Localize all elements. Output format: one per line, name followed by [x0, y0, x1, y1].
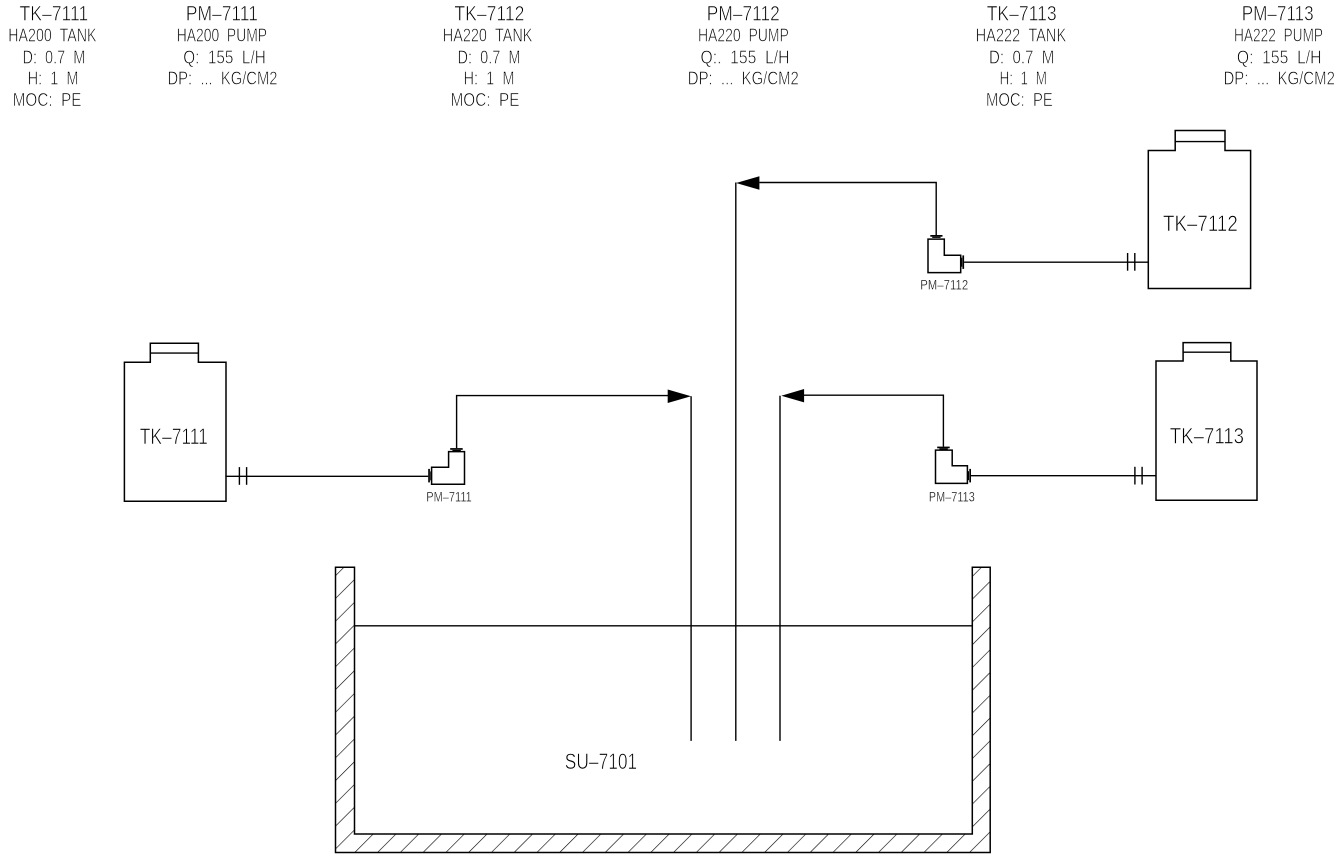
tank TK-7112	[1148, 131, 1250, 289]
pipe PM-7112 discharge up and left	[760, 183, 937, 236]
svg-text:PM–7112: PM–7112	[707, 2, 780, 26]
tank TK-7113	[1156, 343, 1257, 501]
arrow into right drop pipe	[781, 389, 804, 402]
svg-text:TK–7113: TK–7113	[1170, 424, 1244, 449]
svg-text:PM–7111: PM–7111	[426, 489, 472, 504]
pump PM-7112	[920, 235, 968, 293]
sump liquid level line	[355, 625, 973, 627]
pipe TK-7111 to PM-7111	[225, 475, 428, 477]
svg-text:HA220 PUMP: HA220 PUMP	[698, 25, 789, 46]
svg-text:H: 1 M: H: 1 M	[999, 68, 1047, 89]
svg-text:HA220 TANK: HA220 TANK	[443, 25, 533, 46]
svg-text:D: 0.7 M: D: 0.7 M	[989, 47, 1054, 68]
svg-text:PM–7111: PM–7111	[186, 2, 258, 26]
drop pipe into sump (right)	[779, 396, 781, 741]
svg-text:MOC: PE: MOC: PE	[451, 89, 520, 110]
svg-text:TK–7111: TK–7111	[20, 2, 89, 26]
svg-text:HA222 TANK: HA222 TANK	[976, 25, 1067, 46]
svg-text:PM–7113: PM–7113	[1242, 2, 1314, 26]
svg-text:SU–7101: SU–7101	[565, 749, 637, 774]
svg-text:TK–7112: TK–7112	[454, 2, 524, 26]
drop pipe into sump (left)	[690, 396, 692, 741]
arrow into center drop pipe	[736, 176, 759, 189]
svg-text:DP: ... KG/CM2: DP: ... KG/CM2	[168, 68, 278, 89]
sump SU-7101 hatched walls	[336, 567, 991, 852]
svg-text:MOC: PE: MOC: PE	[13, 89, 82, 110]
label block TK-7112 spec	[443, 2, 533, 111]
svg-text:Q: 155 L/H: Q: 155 L/H	[183, 47, 266, 68]
svg-text:MOC: PE: MOC: PE	[986, 89, 1053, 110]
svg-text:TK–7112: TK–7112	[1163, 211, 1238, 236]
svg-text:HA222 PUMP: HA222 PUMP	[1234, 25, 1323, 46]
fitting near TK-7113	[1134, 467, 1135, 485]
svg-text:TK–7111: TK–7111	[140, 424, 208, 449]
label block PM-7111 spec	[168, 2, 278, 89]
svg-text:PM–7113: PM–7113	[929, 489, 975, 504]
svg-text:DP: ... KG/CM2: DP: ... KG/CM2	[688, 68, 799, 89]
svg-text:D: 0.7 M: D: 0.7 M	[23, 47, 86, 68]
svg-text:HA200 PUMP: HA200 PUMP	[177, 25, 267, 46]
pipe PM-7111 discharge up and right	[457, 396, 668, 449]
svg-text:Q:. 155 L/H: Q:. 155 L/H	[701, 47, 790, 68]
svg-text:H: 1 M: H: 1 M	[464, 68, 515, 89]
pump PM-7113	[929, 447, 975, 505]
svg-text:TK–7113: TK–7113	[987, 2, 1057, 26]
tank TK-7111	[124, 343, 226, 501]
pump PM-7111	[426, 448, 472, 504]
fitting near TK-7111	[239, 467, 240, 485]
svg-text:PM–7112: PM–7112	[920, 278, 968, 293]
label block PM-7112 spec	[688, 2, 799, 89]
svg-text:H: 1 M: H: 1 M	[28, 68, 79, 89]
label block TK-7113 spec	[976, 2, 1067, 111]
fitting near TK-7112	[1127, 253, 1128, 271]
svg-text:Q: 155 L/H: Q: 155 L/H	[1237, 47, 1322, 68]
arrow into left drop pipe	[668, 390, 691, 404]
drop pipe into sump (center)	[735, 183, 737, 741]
svg-text:HA200 TANK: HA200 TANK	[8, 25, 97, 46]
label block TK-7111 spec	[8, 2, 97, 111]
pipe TK-7112 to PM-7112	[964, 261, 1148, 263]
pipe TK-7113 to PM-7113	[971, 475, 1156, 477]
svg-text:D: 0.7 M: D: 0.7 M	[458, 47, 521, 68]
svg-text:DP: ... KG/CM2: DP: ... KG/CM2	[1224, 68, 1335, 89]
pipe PM-7113 discharge up and left	[804, 395, 943, 446]
label block PM-7113 spec	[1224, 2, 1335, 89]
